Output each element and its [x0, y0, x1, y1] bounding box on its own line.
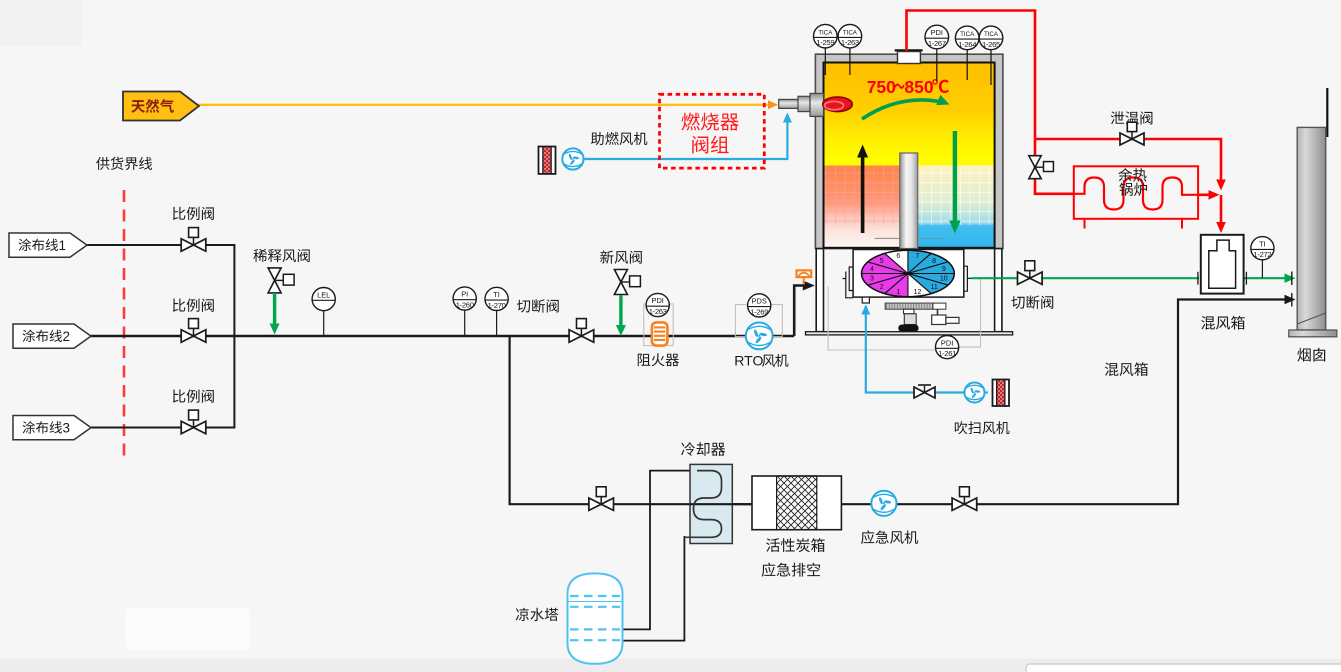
instrument TICA 1-259 — [824, 36, 826, 75]
label 冷却器 — [681, 442, 695, 456]
hot gas red pipe down to mixing box — [1220, 195, 1223, 226]
tag 涂布线1 — [9, 233, 87, 257]
label 余热 — [1118, 168, 1132, 181]
burner body — [779, 99, 799, 108]
svg-text:2: 2 — [63, 329, 71, 344]
valve purge with T handle — [924, 386, 926, 393]
wheel right bracket — [964, 266, 971, 291]
RTO center column — [900, 153, 918, 249]
valve 泄温阀 — [1120, 133, 1144, 145]
arrow purge air up into wheel — [861, 305, 870, 315]
svg-text:TICA: TICA — [818, 29, 833, 36]
label 阻火器 — [638, 354, 651, 367]
instrument TI 1-272 — [1261, 260, 1263, 278]
arrow red down at junction — [1216, 180, 1226, 191]
hot gas red pipe from RTO top — [907, 11, 1036, 140]
green curved arrow in chamber — [862, 100, 944, 119]
wheel support hatched bar — [885, 303, 933, 309]
label 助燃风机 — [591, 132, 604, 145]
purge port under wheel — [862, 297, 869, 303]
burner valve group red dashed box 燃烧器阀组 — [660, 94, 765, 168]
valve 比例阀 1 — [181, 239, 206, 251]
svg-text:1-272: 1-272 — [1253, 250, 1271, 259]
wire main line 2 from tag to RTO fan riser — [91, 286, 809, 337]
pressure tap lines PDI 1-261 — [828, 286, 936, 350]
burner flame — [823, 97, 853, 112]
label 锅炉 — [1119, 183, 1132, 196]
svg-text:5: 5 — [880, 258, 884, 265]
svg-text:1-263: 1-263 — [841, 38, 859, 47]
svg-text:PDI: PDI — [931, 28, 943, 37]
label 混风箱 second — [1105, 363, 1119, 376]
label 比例阀 1 — [173, 207, 185, 220]
label 活性炭箱 — [766, 538, 780, 552]
label 新风阀 — [600, 250, 613, 263]
svg-text:TICA: TICA — [960, 31, 975, 38]
svg-text:4: 4 — [870, 266, 874, 273]
svg-text:11: 11 — [930, 284, 937, 291]
mixing box canister — [1209, 240, 1236, 288]
combustion fan filter — [539, 147, 556, 174]
hot gas red pipe down to boiler — [1035, 139, 1074, 194]
waste heat boiler coil — [1074, 178, 1198, 210]
fan 助燃风机 — [562, 148, 583, 169]
purge fan filter — [993, 380, 1010, 407]
frame around PDI 1-263 and arrester — [644, 304, 673, 346]
RTO top stub flange — [895, 49, 923, 51]
instrument TICA 1-264 — [966, 38, 968, 80]
arrow combustion air up into burner — [783, 113, 792, 123]
valve 切断阀 main line — [569, 330, 594, 342]
label 泄温阀 — [1111, 111, 1124, 124]
instrument PI 1-260 — [464, 310, 466, 336]
tag 天然气 yellow — [123, 92, 199, 121]
wire coating line 1 to valve and down — [87, 245, 234, 336]
svg-text:PDI: PDI — [652, 296, 664, 305]
svg-text:1: 1 — [896, 289, 900, 296]
svg-text:PDS: PDS — [752, 297, 767, 306]
RTO base — [806, 332, 1013, 335]
valve emergency 1 — [589, 498, 614, 510]
fan 应急风机 — [871, 491, 896, 516]
svg-text:PI: PI — [461, 290, 468, 299]
svg-text:1-265: 1-265 — [982, 40, 1000, 49]
svg-text:6: 6 — [896, 253, 900, 260]
RTO bed level lines — [875, 237, 900, 239]
valve 切断阀 green line — [1018, 272, 1043, 284]
flame arrester 阻火器 — [652, 322, 668, 345]
instrument TI 1-270 — [496, 310, 498, 336]
tag 涂布线2 — [13, 324, 91, 348]
label 应急排空 — [762, 563, 776, 577]
lower housing right wall — [995, 249, 1002, 332]
svg-text:1-261: 1-261 — [938, 349, 956, 358]
svg-text:9: 9 — [942, 266, 946, 273]
svg-text:8: 8 — [932, 258, 936, 265]
label 混风箱 under box — [1201, 316, 1215, 330]
purge cyan pipe — [866, 306, 988, 393]
frame around PDS 1-269 and RTO fan — [735, 305, 782, 337]
stack flange tick black — [1291, 293, 1293, 307]
svg-text:10: 10 — [940, 276, 948, 283]
arrow natural gas into burner — [768, 100, 778, 109]
svg-text:1-269: 1-269 — [750, 307, 768, 316]
fan 吹扫风机 — [965, 383, 985, 403]
supply boundary label 供货界线 — [96, 157, 109, 170]
arrow dilution air into main line green — [273, 293, 276, 326]
svg-text:TICA: TICA — [843, 29, 858, 36]
svg-text:7: 7 — [916, 253, 920, 260]
svg-text:TICA: TICA — [984, 31, 999, 38]
label 烟囱 — [1297, 348, 1310, 362]
instrument PDI 1-261 — [936, 336, 959, 359]
valve 稀释风阀 vertical — [268, 268, 281, 293]
svg-text:3: 3 — [63, 421, 71, 436]
svg-text:1-260: 1-260 — [456, 301, 474, 310]
cooler water outlet pipe — [623, 536, 685, 641]
emergency vent black pipe — [510, 300, 1288, 505]
label 切断阀 main line — [517, 300, 530, 313]
wheel chamber box — [853, 250, 964, 298]
svg-text:3: 3 — [870, 276, 874, 283]
damper symbol orange — [803, 277, 805, 284]
arrow red into mixing box — [1216, 222, 1226, 233]
wire coating line 3 to valve and up — [91, 336, 234, 428]
stack flange tick green — [1291, 272, 1293, 286]
svg-text:1-264: 1-264 — [958, 40, 976, 49]
svg-text:750: 750 — [867, 77, 896, 97]
svg-text:RTO: RTO — [734, 353, 763, 369]
label 比例阀 2 — [173, 299, 185, 312]
RTO outer gray shell — [815, 54, 1003, 248]
natural gas yellow pipe — [197, 104, 773, 106]
svg-text:LEL: LEL — [317, 290, 330, 299]
svg-text:TI: TI — [1259, 239, 1266, 248]
label 比例阀 3 — [173, 389, 185, 402]
label 稀释风阀 — [253, 249, 267, 262]
label 应急风机 — [861, 530, 874, 544]
lower housing left wall — [816, 249, 823, 332]
emergency pipe through cooler — [690, 503, 752, 505]
label 切断阀 green line — [1011, 296, 1024, 309]
label 凉水塔 — [516, 608, 529, 621]
arrow fresh air into main line green — [619, 295, 622, 327]
instrument PDS 1-269 — [748, 294, 771, 317]
hot gas red pipe to relief valve — [1035, 139, 1221, 183]
valve emergency 2 — [952, 498, 977, 510]
svg-text:TI: TI — [493, 290, 500, 299]
supply boundary red dashed line — [123, 190, 126, 458]
svg-text:2: 2 — [880, 284, 884, 291]
arrow red boiler outlet — [1209, 190, 1220, 200]
clean gas green pipe box to stack — [1244, 277, 1288, 279]
svg-text:PDI: PDI — [941, 338, 953, 347]
svg-text:1-259: 1-259 — [816, 38, 834, 47]
cooler box — [690, 464, 732, 543]
svg-text:1-267: 1-267 — [928, 39, 946, 48]
combustion air cyan pipe — [584, 118, 788, 159]
RTO combustion chamber yellow — [824, 63, 995, 166]
arrow main line into RTO base — [803, 281, 815, 291]
clean gas green pipe to mixing box — [971, 277, 1199, 279]
tag 涂布线3 — [13, 416, 91, 440]
cooling tower 凉水塔 — [568, 573, 623, 663]
black up arrow left bed — [861, 152, 865, 233]
waste heat boiler box 余热锅炉 — [1074, 166, 1198, 219]
svg-text:1: 1 — [59, 238, 67, 253]
svg-text:12: 12 — [914, 289, 922, 296]
activated carbon box — [752, 476, 841, 530]
cooler coil — [684, 471, 721, 538]
fan RTO风机 — [746, 323, 773, 350]
rotary distributor wheel — [908, 250, 931, 273]
mixing box flange ticks — [1197, 272, 1199, 285]
stack lightning rod — [1326, 88, 1328, 137]
arrow emergency into stack — [1285, 295, 1296, 304]
label 吹扫风机 — [955, 421, 968, 434]
svg-text:850: 850 — [904, 77, 933, 97]
valve red vertical — [1029, 156, 1041, 179]
instrument PDI 1-263 — [646, 293, 669, 316]
RTO right heat bed — [918, 166, 995, 248]
green down arrow right bed — [953, 131, 957, 226]
instrument PDI 1-267 — [936, 37, 938, 81]
valve 比例阀 2 — [181, 330, 206, 342]
valve 比例阀 3 — [181, 421, 206, 433]
stack 烟囱 — [1297, 127, 1326, 330]
valve 新风阀 vertical — [614, 270, 627, 295]
wheel shaft and foot — [904, 309, 915, 314]
mixing box 混风箱 — [1201, 235, 1244, 294]
instrument LEL — [323, 310, 325, 336]
wheel left bracket — [843, 267, 854, 298]
wheel drive motor — [937, 309, 939, 315]
RTO inner cavity outline — [824, 63, 995, 248]
svg-text:1-270: 1-270 — [488, 301, 506, 310]
arrow green into stack — [1285, 273, 1296, 283]
RTO left heat bed — [824, 166, 900, 248]
cooler water inlet pipe — [623, 471, 698, 630]
instrument TICA 1-265 — [990, 38, 992, 85]
svg-text:1-263: 1-263 — [649, 307, 667, 316]
boiler outlet red pipe — [1198, 194, 1212, 197]
instrument TICA 1-263 — [849, 36, 851, 75]
